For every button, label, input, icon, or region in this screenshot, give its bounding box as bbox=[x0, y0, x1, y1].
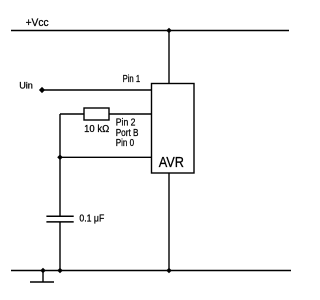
node capacitor-rail junction dot bbox=[57, 268, 63, 274]
svg-text:Uin: Uin bbox=[19, 81, 33, 92]
node ground junction dot bbox=[40, 268, 46, 274]
wire Vcc to AVR pin top bbox=[168, 31, 170, 84]
svg-text:0.1 μF: 0.1 μF bbox=[79, 213, 104, 224]
svg-text:Pin 2: Pin 2 bbox=[116, 117, 136, 128]
svg-text:AVR: AVR bbox=[159, 155, 184, 171]
svg-text:+Vcc: +Vcc bbox=[26, 17, 49, 29]
wire ground bottom rail bbox=[11, 270, 291, 272]
wire Pin 0 bbox=[60, 156, 152, 158]
wire left vertical node A down to capacitor bbox=[59, 114, 61, 216]
ground bbox=[30, 271, 54, 283]
node Vcc junction dot bbox=[166, 28, 172, 34]
wire node A to resistor left bbox=[60, 113, 84, 115]
svg-text:Pin 1: Pin 1 bbox=[123, 74, 141, 85]
svg-text:10 kΩ: 10 kΩ bbox=[84, 123, 109, 135]
svg-text:Port B: Port B bbox=[116, 128, 139, 139]
wire capacitor bottom to ground rail bbox=[59, 222, 61, 271]
wire resistor right to Pin 2 bbox=[109, 113, 152, 115]
node A junction dot (Pin 0 / vertical) bbox=[57, 155, 63, 161]
node Uin junction dot bbox=[39, 87, 45, 93]
resistor R1 10 kOhm bbox=[84, 108, 109, 135]
op-amp U1 AVR box bbox=[152, 84, 195, 174]
svg-text:Pin 0: Pin 0 bbox=[116, 138, 135, 149]
wire +Vcc top rail bbox=[11, 30, 289, 32]
capacitor C1 0.1 uF bbox=[46, 213, 104, 224]
wire AVR bottom to ground rail bbox=[168, 173, 170, 271]
wire Uin to Pin 1 bbox=[42, 89, 152, 91]
node AVR-rail junction dot bbox=[166, 268, 172, 274]
